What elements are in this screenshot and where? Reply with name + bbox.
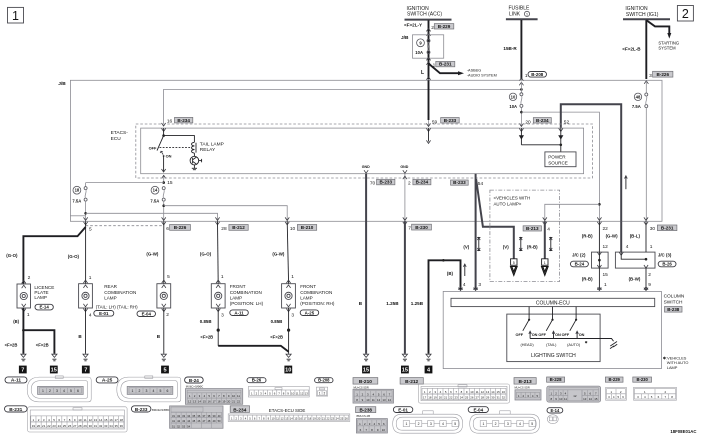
FRONT COMBINATION LAMP LH label: [230, 284, 264, 306]
svg-text:33: 33: [104, 424, 108, 428]
svg-text:SYSTEM: SYSTEM: [658, 46, 676, 51]
connector view E-01: [393, 411, 463, 433]
crossing pin 6: [162, 217, 166, 224]
svg-text:35: 35: [114, 424, 118, 428]
svg-text:SWITCH (IG1): SWITCH (IG1): [626, 12, 659, 18]
signal arrow V sensor: [519, 238, 522, 251]
connector view E-04 label: [468, 407, 488, 413]
svg-text:1: 1: [650, 244, 653, 250]
svg-text:LAMP: LAMP: [667, 365, 678, 370]
svg-text:4: 4: [89, 312, 92, 318]
COLUMN SWITCH label: [664, 294, 685, 313]
svg-text:B-234: B-234: [536, 118, 549, 123]
ground 4 marker: [425, 366, 433, 374]
svg-text:(G-W): (G-W): [146, 252, 158, 257]
svg-text:COMBINATION: COMBINATION: [104, 290, 136, 295]
sensor terminal 5: [511, 259, 518, 275]
svg-text:B-212: B-212: [232, 225, 245, 230]
svg-text:59: 59: [432, 120, 438, 126]
svg-text:13: 13: [193, 400, 197, 404]
relay switch mech link dashed: [160, 147, 191, 149]
svg-text:32: 32: [177, 414, 180, 418]
svg-text:22: 22: [237, 400, 241, 404]
svg-text:31: 31: [497, 396, 501, 400]
connector view E-14 label: [547, 408, 563, 413]
svg-text:22: 22: [603, 226, 609, 232]
svg-text:3: 3: [478, 282, 481, 288]
wire branch to audio system: [429, 64, 459, 74]
svg-text:10: 10: [271, 416, 274, 420]
connector view B-26: [248, 386, 309, 397]
svg-text:(AUTO): (AUTO): [567, 343, 581, 347]
svg-text:(B): (B): [13, 319, 19, 324]
svg-text:37: 37: [202, 414, 205, 418]
crossing pin 22: [597, 217, 601, 224]
J/C (3) box: [615, 252, 655, 268]
connector A-11 label: [230, 310, 249, 316]
svg-text:22: 22: [449, 396, 453, 400]
svg-text:1: 1: [291, 274, 294, 280]
svg-text:(G-O): (G-O): [6, 253, 18, 258]
svg-text:1: 1: [221, 274, 224, 280]
ground symbol B: [426, 354, 431, 361]
svg-text:32: 32: [502, 396, 506, 400]
svg-text:15: 15: [51, 368, 57, 374]
svg-text:B-234: B-234: [177, 118, 190, 123]
svg-text:OFF: OFF: [562, 333, 570, 337]
page marker 1: [8, 7, 24, 23]
ground symbol rear LH: [83, 354, 88, 361]
wire 54 B-233: [475, 174, 477, 290]
connector view B-208 label: [315, 378, 333, 383]
svg-text:31: 31: [94, 424, 98, 428]
svg-text:1.25B: 1.25B: [411, 301, 424, 306]
ground 7 marker rear LH: [82, 366, 90, 374]
ground symbol front lamps: [286, 354, 291, 361]
wire fuse10 to auto lamp: [521, 112, 599, 221]
svg-text:15: 15: [594, 397, 598, 401]
connector view B-230 label: [633, 377, 652, 382]
svg-text:7: 7: [21, 368, 24, 374]
svg-text:B-226: B-226: [174, 225, 187, 230]
connector crossing B-208: [519, 78, 523, 85]
svg-text:4: 4: [519, 422, 521, 426]
pin 2 connector B-234 label: [408, 179, 431, 186]
wire rear LH ground: [85, 308, 87, 354]
wire ACC inside J/B 59: [426, 80, 430, 126]
svg-text:A-11: A-11: [234, 310, 244, 315]
svg-text:4: 4: [463, 282, 466, 288]
svg-text:ON: ON: [555, 333, 561, 337]
connector view B-234 label: [230, 406, 305, 414]
svg-text:SWITCH (ACC): SWITCH (ACC): [407, 11, 442, 17]
pin 3 connector B-226: [649, 71, 673, 79]
svg-text:B-238: B-238: [667, 307, 680, 312]
wire fusible link 15B-R: [520, 20, 522, 80]
wire IG1 inside J/B: [645, 81, 647, 93]
svg-text:ON: ON: [579, 333, 585, 337]
svg-text:45: 45: [192, 419, 195, 423]
wire fuse 14 out: [162, 201, 165, 221]
svg-text:1.25B: 1.25B: [386, 301, 399, 306]
svg-text:2: 2: [323, 392, 325, 396]
svg-text:3: 3: [221, 312, 224, 318]
relay switch blade: [157, 136, 165, 157]
svg-text:B-234: B-234: [416, 180, 429, 185]
svg-text:1: 1: [604, 282, 607, 288]
note vehicles with auto lamp: [663, 356, 689, 370]
wire fusible link inside J/B: [520, 82, 522, 93]
connector view B-228: [547, 386, 601, 402]
svg-text:(HEAD): (HEAD): [521, 343, 535, 347]
ground 15 marker: [362, 366, 370, 374]
node auto lamp tap: [598, 203, 601, 206]
svg-text:B-210: B-210: [359, 379, 372, 385]
connector view B-238 label: [356, 407, 376, 418]
svg-text:<F>2B: <F>2B: [5, 343, 18, 348]
svg-text:2: 2: [648, 272, 651, 278]
svg-text:13: 13: [94, 418, 98, 422]
svg-text:6: 6: [166, 226, 169, 232]
arrow ETACS pin16 feed: [162, 123, 166, 126]
svg-text:E-14: E-14: [40, 305, 50, 310]
wire branch to starting system: [646, 20, 669, 34]
svg-text:3: 3: [430, 422, 432, 426]
svg-text:48: 48: [207, 419, 210, 423]
svg-text:14: 14: [198, 400, 202, 404]
TAIL LAMP RELAY label: [200, 141, 224, 153]
pin 59 connector B-233: [432, 118, 459, 126]
node B junction: [442, 259, 445, 262]
svg-text:ON: ON: [166, 153, 172, 158]
svg-text:26: 26: [345, 416, 348, 420]
svg-text:COLUMN: COLUMN: [664, 294, 685, 300]
fuse 14 circled number: [151, 186, 159, 194]
J/C (2) label: [570, 253, 588, 267]
svg-text:RELAY: RELAY: [200, 147, 216, 153]
svg-text:J/B: J/B: [58, 81, 66, 87]
svg-text:0.85B: 0.85B: [200, 319, 212, 324]
connector view B-231: [28, 407, 128, 432]
svg-text:27: 27: [476, 396, 480, 400]
connector view B-213 label: [514, 378, 536, 390]
svg-text:16: 16: [109, 418, 113, 422]
wire fuse 18 out: [84, 201, 87, 221]
LICENCE PLATE LAMP label: [34, 285, 54, 310]
connector view B-234: [228, 414, 350, 422]
svg-text:SOURCE: SOURCE: [548, 161, 568, 166]
svg-text:B-231: B-231: [439, 62, 452, 67]
svg-text:23: 23: [52, 424, 56, 428]
connector view A-11 label: [5, 377, 27, 384]
svg-text:15B-R: 15B-R: [503, 46, 517, 51]
svg-text:13: 13: [285, 416, 288, 420]
rear combination lamp LH: [79, 280, 93, 312]
svg-text:2: 2: [49, 389, 51, 393]
svg-text:28: 28: [78, 424, 82, 428]
connector view B-24 label: [185, 377, 204, 388]
vehicles with auto lamp label: [494, 195, 531, 206]
wire 54 branch to sensor: [476, 179, 514, 259]
svg-text:<F>2L-Y: <F>2L-Y: [404, 23, 422, 28]
svg-text:1: 1: [12, 9, 19, 23]
J/B internal bus: [164, 88, 523, 123]
svg-text:1: 1: [544, 261, 546, 265]
svg-text:(R-B): (R-B): [582, 234, 593, 239]
svg-text:E-01: E-01: [398, 407, 408, 412]
svg-text:(B-L): (B-L): [630, 234, 641, 239]
svg-text:47: 47: [202, 419, 205, 423]
svg-text:18: 18: [120, 418, 124, 422]
svg-text:10: 10: [366, 398, 370, 402]
connector view A-11: [27, 376, 91, 402]
svg-text:54: 54: [478, 181, 484, 187]
connector view B-229 label: [605, 377, 623, 382]
svg-text:(R-B): (R-B): [527, 245, 538, 250]
ground symbol licence 1: [21, 354, 26, 361]
svg-text:12: 12: [603, 244, 609, 250]
svg-text:B-231: B-231: [9, 407, 22, 413]
svg-text:12: 12: [481, 390, 485, 394]
svg-text:13: 13: [583, 397, 587, 401]
svg-text:31: 31: [172, 414, 175, 418]
svg-text:24: 24: [58, 424, 62, 428]
svg-text:10: 10: [382, 428, 386, 432]
COLUMN-ECU bar: [451, 298, 655, 306]
svg-text:5: 5: [513, 261, 515, 265]
svg-text:3: 3: [507, 422, 509, 426]
wire front LH ground: [217, 308, 220, 346]
svg-text:17: 17: [114, 418, 118, 422]
front combination lamp RH: [282, 280, 296, 312]
svg-text:AUTO LAMP>: AUTO LAMP>: [494, 201, 522, 206]
svg-text:B-24: B-24: [575, 262, 585, 267]
svg-text:<F>2B: <F>2B: [36, 343, 49, 348]
ground 5 marker: [161, 366, 169, 374]
svg-text:B-208: B-208: [531, 72, 544, 77]
svg-text:14: 14: [388, 398, 392, 402]
svg-text:24: 24: [460, 396, 464, 400]
connector view B-24: [185, 389, 242, 405]
svg-text:15: 15: [402, 368, 408, 374]
svg-text:1: 1: [27, 312, 30, 318]
dashed link 5 to 6: [86, 225, 164, 227]
connector view B-229: [606, 387, 627, 400]
relay internal ground: [192, 165, 197, 170]
svg-text:12: 12: [89, 418, 93, 422]
svg-text:14: 14: [290, 416, 293, 420]
svg-text:52: 52: [564, 120, 570, 126]
ground 7 marker: [19, 366, 27, 374]
fusible link label: [509, 6, 531, 18]
pin 4 into column ECU: [458, 282, 466, 291]
svg-text:GND: GND: [400, 165, 408, 169]
svg-text:10: 10: [470, 390, 474, 394]
pin 16 connector B-234: [167, 117, 193, 124]
page marker 2: [677, 6, 693, 22]
wire to licence plate lamp: [23, 227, 85, 284]
svg-text:7.5A: 7.5A: [632, 104, 641, 109]
J/B bus to front lamp LH: [86, 213, 218, 221]
svg-text:A-25: A-25: [305, 310, 315, 315]
svg-text:10: 10: [232, 394, 236, 398]
svg-text:20: 20: [317, 416, 320, 420]
J/C (2) box: [592, 252, 609, 268]
svg-text:12: 12: [300, 392, 304, 396]
svg-text:2: 2: [28, 275, 31, 281]
svg-text:(G-O): (G-O): [200, 252, 212, 257]
wire inside J/C3: [619, 252, 648, 268]
relay switch output wire: [162, 156, 166, 172]
svg-text:13: 13: [486, 390, 490, 394]
svg-text:26: 26: [68, 424, 72, 428]
svg-text:15: 15: [363, 368, 369, 374]
signal arrow wire 4: [625, 176, 628, 189]
svg-text:15: 15: [203, 400, 207, 404]
svg-text:15: 15: [294, 416, 297, 420]
svg-text:15: 15: [497, 390, 501, 394]
svg-text:14: 14: [491, 390, 495, 394]
crossing pin 28: [215, 217, 219, 224]
svg-text:20: 20: [525, 120, 531, 126]
svg-text:35: 35: [192, 414, 195, 418]
relay transistor: [190, 153, 202, 165]
svg-text:B-26: B-26: [662, 262, 672, 267]
svg-text:0.85B: 0.85B: [271, 319, 283, 324]
svg-text:12: 12: [281, 416, 284, 420]
svg-text:LAMP: LAMP: [230, 295, 243, 300]
svg-text:1: 1: [482, 422, 484, 426]
tail lamp relay coil: [192, 142, 195, 153]
svg-text:5: 5: [70, 389, 72, 393]
svg-text:OFF: OFF: [516, 333, 524, 337]
wire tap to B-213 pin4: [545, 204, 600, 221]
svg-text:22: 22: [47, 424, 51, 428]
wire IG1 feed 2L-B: [645, 20, 647, 79]
svg-text:16: 16: [502, 390, 506, 394]
wire J/C2 to column: [598, 268, 600, 290]
svg-text:36: 36: [120, 424, 124, 428]
wire fuse 10 out: [519, 107, 523, 126]
GND terminal 2: [400, 165, 408, 173]
svg-text:ƟMU×S·4Ɵ: ƟMU×S·4Ɵ: [356, 414, 370, 418]
wire licence ground branch: [23, 330, 54, 354]
svg-text:70: 70: [370, 181, 376, 187]
svg-text:52: 52: [177, 424, 180, 428]
svg-text:49: 49: [213, 419, 216, 423]
svg-text:12: 12: [573, 394, 577, 398]
ground symbol licence 2: [52, 354, 57, 361]
svg-text:<F>2B: <F>2B: [200, 335, 213, 340]
pin 6 connector B-226: [166, 225, 190, 232]
svg-text:30: 30: [491, 396, 495, 400]
pin 1 connector B-208: [525, 72, 547, 79]
connector view B-212: [418, 384, 509, 403]
svg-text:4: 4: [442, 422, 444, 426]
svg-text:3: 3: [291, 312, 294, 318]
svg-text:43: 43: [182, 419, 185, 423]
fuse 10: [520, 93, 523, 108]
svg-text:23: 23: [331, 416, 334, 420]
svg-text:B-229: B-229: [608, 377, 620, 382]
label ASB&G / AUDIO SYSTEM: [467, 69, 497, 78]
svg-text:2: 2: [139, 389, 141, 393]
signal arrow R-B sensor: [549, 238, 552, 251]
ground symbol rear RH: [161, 354, 166, 361]
svg-text:30: 30: [89, 424, 93, 428]
ignition switch (IG1) label: [625, 6, 658, 18]
svg-text:34: 34: [187, 414, 190, 418]
connector view E-04: [470, 411, 540, 433]
svg-text:11: 11: [476, 390, 479, 394]
svg-text:FRONT: FRONT: [300, 284, 316, 289]
LIGHTING SWITCH box: [507, 314, 600, 362]
svg-text:19: 19: [434, 396, 438, 400]
wire 30 B-L to J/C3: [645, 221, 647, 252]
svg-text:21: 21: [42, 424, 46, 428]
pin 3 into column ECU: [474, 282, 482, 291]
svg-text:MU×CS·5DR: MU×CS·5DR: [354, 385, 369, 389]
svg-text:B-26: B-26: [252, 378, 262, 383]
svg-text:1: 1: [526, 13, 528, 17]
svg-text:B-234: B-234: [233, 407, 246, 413]
fuse 9: [427, 39, 430, 54]
connector view B-26 label: [247, 378, 266, 383]
connector view B-233 label: [131, 406, 171, 412]
svg-text:21: 21: [322, 416, 325, 420]
wire fuse 18 top: [85, 183, 87, 187]
svg-text:18F08E01AC: 18F08E01AC: [670, 429, 696, 434]
pin 7 connector B-230: [408, 224, 431, 231]
svg-text:51: 51: [172, 424, 175, 428]
svg-text:25: 25: [63, 424, 67, 428]
fuse 18: [84, 187, 87, 202]
pin 1 into column ECU right: [597, 282, 607, 291]
svg-text:SWITCH: SWITCH: [664, 300, 683, 306]
connector view B-210: [353, 389, 394, 403]
fuse 10 circled number: [509, 93, 516, 100]
relay input terminal 16: [162, 128, 166, 137]
lighting switch pole (AUTO): [562, 307, 585, 347]
svg-text:21: 21: [444, 396, 448, 400]
svg-text:ƟMU&CS/ƟƟCƟ: ƟMU&CS/ƟƟCƟ: [152, 408, 172, 412]
svg-text:1: 1: [319, 392, 321, 396]
svg-text:15: 15: [167, 180, 173, 186]
J/B junction block box: [70, 80, 662, 221]
pin 54 connector B-233 label: [451, 180, 484, 187]
svg-text:(POSITION: RH): (POSITION: RH): [300, 301, 335, 306]
connector view B-212 label: [400, 378, 423, 385]
svg-text:16: 16: [299, 416, 302, 420]
svg-text:LINK: LINK: [509, 12, 521, 18]
wire to front lamp LH: [217, 221, 220, 283]
svg-text:E-04: E-04: [142, 311, 152, 316]
svg-text:B-238: B-238: [359, 408, 372, 413]
ETACS-ECU label: [111, 130, 129, 142]
svg-text:11: 11: [84, 418, 87, 422]
svg-text:14: 14: [99, 418, 103, 422]
wire through J/C2: [597, 252, 601, 268]
wire 4 G-W to J/C3: [620, 221, 622, 252]
arrowhead to audio system: [458, 71, 464, 75]
J/B bus to front lamp RH: [164, 206, 288, 222]
svg-text:7.5A: 7.5A: [72, 198, 81, 203]
J/B fuse box (fuse 9): [413, 35, 444, 58]
svg-text:E-14: E-14: [550, 408, 560, 413]
svg-text:10: 10: [290, 226, 296, 232]
svg-text:B-233: B-233: [379, 180, 392, 185]
REAR COMBINATION LAMP label: [96, 284, 138, 309]
